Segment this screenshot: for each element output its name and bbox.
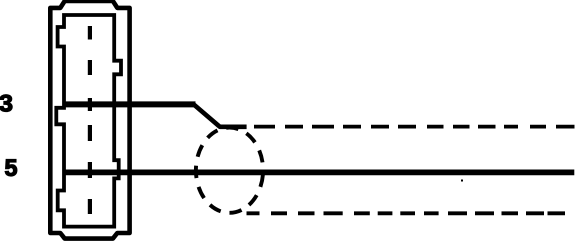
svg-text:5: 5	[5, 155, 18, 182]
pin contact slots (dashed centerline)	[88, 26, 92, 214]
wire from pin 5 (solid run to right edge)	[64, 169, 574, 175]
svg-text:3: 3	[0, 91, 13, 118]
scan speck	[461, 180, 463, 182]
wire from pin 3 (slant down into shielded cable)	[194, 104, 247, 127]
shield boundary ellipse (dashed)	[196, 128, 263, 213]
connector X1 inner housing with polarization notches	[56, 15, 121, 227]
connector X1 outer housing	[50, 1, 129, 239]
cable shield, bottom dashed line	[247, 211, 566, 215]
cable shield, top dashed line	[254, 125, 575, 129]
wire from pin 3 (horizontal run)	[64, 101, 196, 107]
